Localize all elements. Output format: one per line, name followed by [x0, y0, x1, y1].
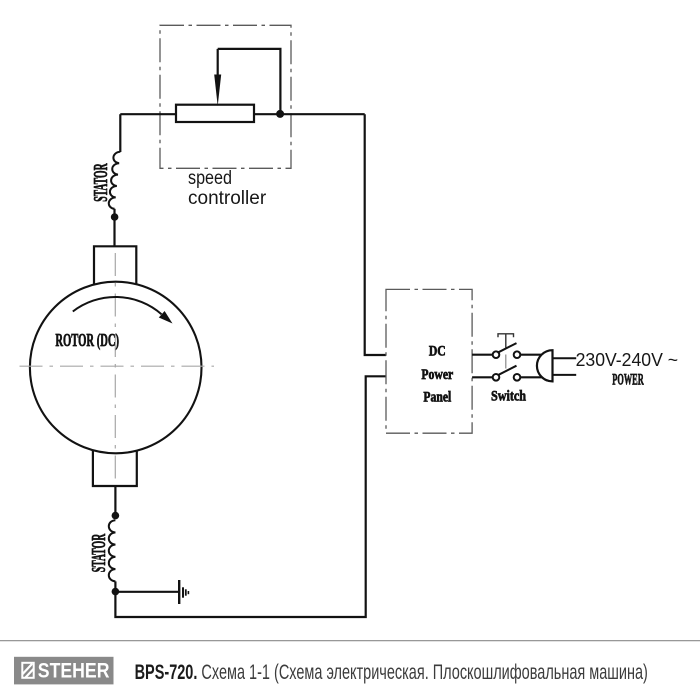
node: junction dot above stator L2 [112, 512, 120, 520]
plug prong (upper) [553, 357, 577, 359]
brush (bottom) of DC motor [93, 451, 137, 487]
wire: panel to switch (lower) [472, 376, 493, 378]
svg-text:BPS-720. Схема 1-1 (Схема элек: BPS-720. Схема 1-1 (Схема электрическая.… [135, 660, 648, 683]
wire: top net left segment (pot left lead to stator corner) [120, 113, 176, 115]
wire: stator L1 to top brush [113, 209, 115, 246]
svg-text:DC: DC [429, 342, 446, 359]
svg-text:speed: speed [188, 167, 232, 189]
brush (top) of DC motor [94, 246, 136, 285]
wire: bottom return wire (left vertical, bottom run, right riser to panel) [115, 376, 386, 617]
potentiometer wiper arrow [217, 49, 219, 75]
mains plug body [537, 350, 553, 381]
wire: switch to plug (upper) [520, 354, 542, 356]
label "speed controller" [188, 167, 267, 209]
node: junction dot at potentiometer output [276, 110, 284, 118]
inductor: stator winding L1 (top) [109, 152, 121, 209]
svg-text:POWER: POWER [612, 371, 644, 389]
switch S1: upper pole contacts and lever [493, 343, 521, 358]
svg-text:controller: controller [188, 188, 267, 209]
rotation direction arc arrow [73, 297, 162, 314]
DC power panel dashed enclosure [386, 289, 472, 433]
node: junction dot at ground tap [112, 588, 120, 596]
STEHER logo plate [14, 657, 114, 685]
label "DC Power Panel" [421, 342, 453, 405]
svg-text:230V-240V ~: 230V-240V ~ [576, 350, 678, 370]
wire: right vertical drop to DC power panel (upper) [365, 114, 386, 355]
svg-text:ROTOR (DC): ROTOR (DC) [55, 331, 119, 351]
STEHER logo icon (striped square) [22, 663, 34, 678]
node: junction dot below stator L1 [111, 213, 119, 221]
wire: wiper feedback loop (top and right side) [218, 49, 281, 114]
wire: bottom brush to stator L2 [114, 486, 116, 512]
wire: stator L2 lower lead [114, 581, 116, 591]
centerline: horizontal axis (gray dash-dot) [20, 365, 215, 367]
svg-text:STEHER: STEHER [38, 660, 110, 683]
plug prong (lower) [553, 374, 577, 376]
potentiometer (speed controller) body [176, 105, 254, 122]
svg-text:Panel: Panel [423, 388, 451, 405]
footer separator line [0, 640, 700, 642]
rotor circle (DC motor) [30, 282, 202, 454]
wire: to chassis ground [115, 591, 178, 593]
svg-text:STATOR: STATOR [88, 533, 110, 572]
switch S1: actuator T-bar [498, 334, 514, 348]
svg-text:Power: Power [421, 366, 453, 383]
svg-text:STATOR: STATOR [91, 163, 113, 202]
switch S1: lower pole contacts and lever [493, 366, 521, 381]
wire: panel to switch (upper) [472, 354, 493, 356]
centerline: vertical axis (gray dash-dot) [114, 253, 116, 481]
wire: top net right segment (pot right lead to right corner) [254, 113, 365, 115]
wire: switch to plug (lower) [520, 376, 542, 378]
speed controller dashed enclosure [160, 25, 291, 168]
wire: left vertical from top net down to stator L1 [119, 114, 121, 152]
switch S1: mechanical linkage (dashed) [505, 355, 507, 369]
ground (chassis) symbol [179, 580, 188, 604]
svg-text:Switch: Switch [491, 387, 526, 403]
inductor: stator winding L2 (bottom) [109, 520, 116, 581]
